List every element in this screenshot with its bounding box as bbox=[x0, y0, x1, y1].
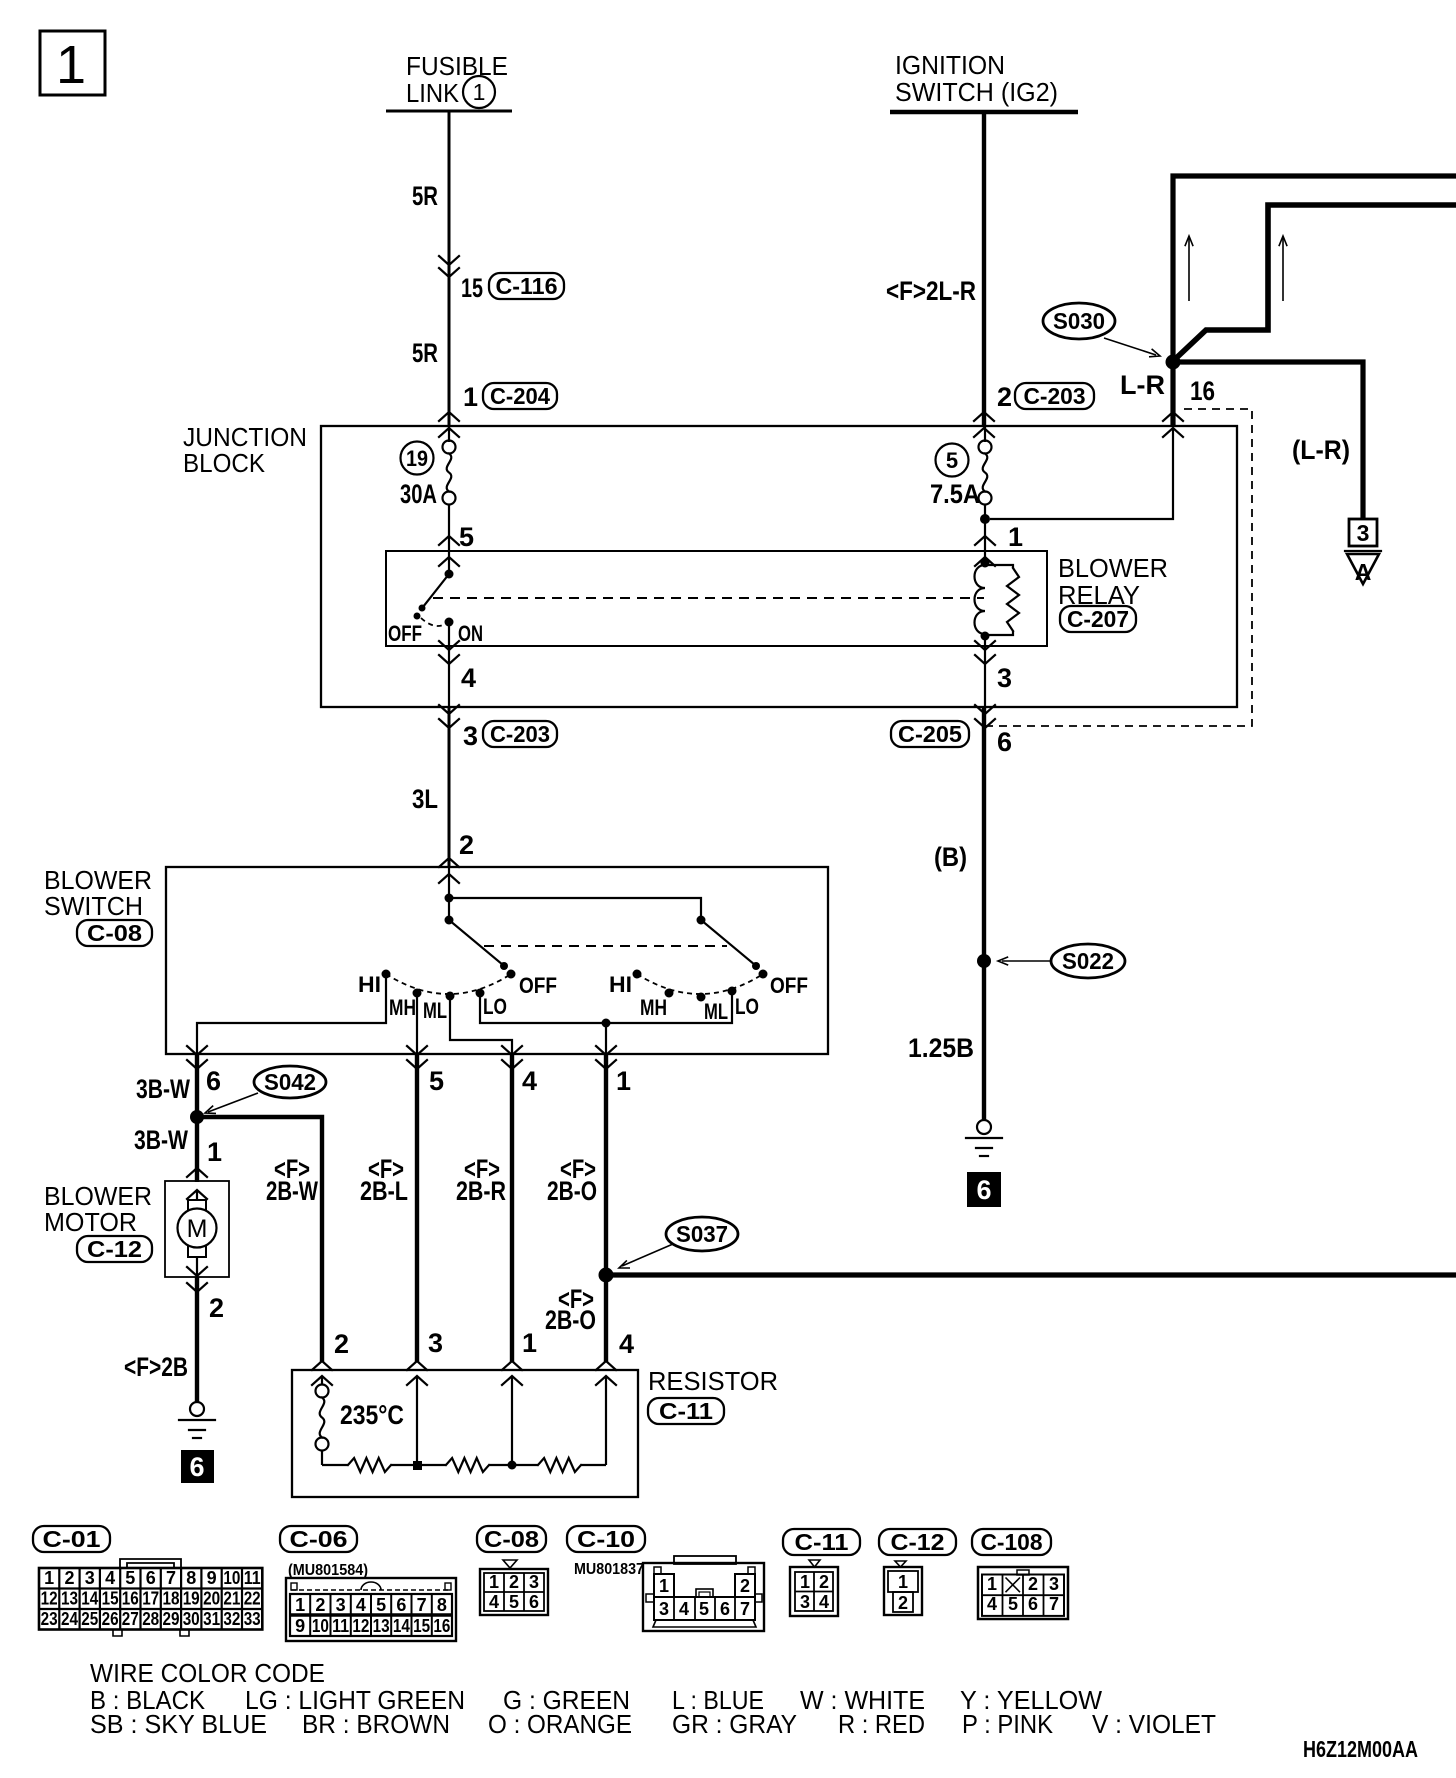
wire 5R from fusible link bbox=[448, 111, 451, 426]
svg-text:28: 28 bbox=[142, 1609, 159, 1629]
svg-text:3B-W: 3B-W bbox=[136, 1074, 190, 1104]
wire motor to ground bbox=[195, 1277, 199, 1402]
blower switch label bbox=[44, 865, 152, 921]
fusible link circled 1 bbox=[463, 76, 495, 108]
wire B to ground bbox=[982, 707, 986, 1120]
right wafer OFF contact bbox=[759, 970, 768, 979]
relay coil bottom dot bbox=[981, 632, 990, 641]
svg-text:C-207: C-207 bbox=[1067, 606, 1129, 632]
junction block entry chevrons left bbox=[439, 412, 459, 437]
svg-text:2: 2 bbox=[334, 1329, 349, 1359]
fuse 5 (7.5A) symbol bbox=[979, 441, 992, 505]
splice S042 bbox=[254, 1066, 326, 1098]
connector C-12 pinout bbox=[884, 1561, 922, 1615]
svg-text:1: 1 bbox=[295, 1595, 305, 1615]
connector C-108 pinout bbox=[978, 1567, 1068, 1619]
svg-text:OFF: OFF bbox=[519, 973, 557, 998]
svg-text:C-205: C-205 bbox=[898, 721, 962, 747]
wire from pin16 to relay coil feed bbox=[990, 428, 1173, 519]
svg-text:1: 1 bbox=[898, 1572, 908, 1592]
svg-text:1: 1 bbox=[207, 1137, 222, 1167]
arrow from S022 bbox=[998, 957, 1051, 965]
svg-text:13: 13 bbox=[61, 1589, 78, 1609]
resistor element R3 bbox=[538, 1458, 581, 1472]
switch exit chevrons pin5 bbox=[407, 1046, 427, 1069]
connector C-205 bbox=[891, 721, 969, 747]
svg-text:C-204: C-204 bbox=[490, 383, 550, 409]
svg-text:WIRE COLOR CODE: WIRE COLOR CODE bbox=[90, 1658, 325, 1688]
left wafer labels bbox=[358, 972, 557, 1023]
left wafer ML contact bbox=[446, 992, 455, 1001]
svg-text:IGNITION: IGNITION bbox=[895, 50, 1005, 80]
svg-text:1: 1 bbox=[56, 35, 86, 95]
wire 2B-R labels bbox=[456, 1154, 506, 1206]
svg-text:33: 33 bbox=[244, 1609, 261, 1629]
wire color code row 2 bbox=[90, 1709, 1216, 1739]
svg-text:25: 25 bbox=[81, 1609, 98, 1629]
svg-text:<F>2L-R: <F>2L-R bbox=[886, 276, 976, 306]
connector C-08 bbox=[77, 920, 152, 946]
svg-text:29: 29 bbox=[163, 1609, 180, 1629]
svg-text:4: 4 bbox=[987, 1594, 997, 1614]
relay contact dashed arc bbox=[421, 618, 446, 626]
svg-text:SWITCH: SWITCH bbox=[44, 891, 143, 921]
connector C-08 pinout bbox=[480, 1560, 548, 1615]
svg-text:C-11: C-11 bbox=[795, 1529, 849, 1555]
splice dot S022 bbox=[977, 954, 991, 968]
arrow from S037 bbox=[619, 1244, 673, 1268]
blower relay outline bbox=[386, 551, 1047, 646]
wire 2B-W labels bbox=[266, 1154, 318, 1206]
svg-text:20: 20 bbox=[203, 1589, 220, 1609]
svg-text:32: 32 bbox=[223, 1609, 240, 1629]
connector C-10 pinout bbox=[643, 1556, 764, 1631]
svg-text:S037: S037 bbox=[676, 1221, 728, 1247]
svg-text:3L: 3L bbox=[412, 784, 438, 814]
svg-text:10: 10 bbox=[312, 1616, 329, 1636]
svg-text:4: 4 bbox=[356, 1595, 366, 1615]
fuse 5 number circle bbox=[936, 444, 969, 477]
splice S030 bbox=[1043, 303, 1115, 339]
svg-text:1: 1 bbox=[463, 382, 478, 412]
svg-text:C-108: C-108 bbox=[981, 1529, 1043, 1555]
resistor link R3-pin4 bbox=[581, 1464, 606, 1466]
svg-text:18: 18 bbox=[163, 1589, 180, 1609]
svg-text:MOTOR: MOTOR bbox=[44, 1207, 137, 1237]
svg-text:17: 17 bbox=[142, 1589, 159, 1609]
svg-text:30: 30 bbox=[183, 1609, 200, 1629]
right wafer labels bbox=[609, 972, 808, 1024]
wire LO bus to pin 1 bbox=[480, 991, 732, 1023]
ground right bbox=[966, 1120, 1002, 1156]
svg-text:C-08: C-08 bbox=[87, 920, 142, 946]
svg-text:235°C: 235°C bbox=[340, 1400, 404, 1430]
wire L-R down to junction block pin 16 bbox=[1170, 362, 1175, 426]
junction block entry chevrons right bbox=[1163, 412, 1183, 437]
ground ref 6 right bbox=[967, 1172, 1001, 1207]
connector C-204 bbox=[483, 383, 557, 409]
junction block exit chevrons right bbox=[975, 705, 995, 728]
svg-text:3: 3 bbox=[463, 721, 478, 751]
svg-text:4: 4 bbox=[489, 1592, 499, 1612]
svg-text:6: 6 bbox=[976, 1175, 991, 1205]
wire 2L-R from ignition switch bbox=[982, 112, 986, 426]
connector C-203 top bbox=[1015, 383, 1094, 409]
svg-text:3: 3 bbox=[800, 1592, 810, 1612]
svg-text:6: 6 bbox=[396, 1595, 406, 1615]
svg-text:3: 3 bbox=[85, 1568, 95, 1588]
relay OFF contact bbox=[414, 613, 421, 620]
svg-text:S042: S042 bbox=[264, 1069, 316, 1095]
resistor element R1 bbox=[322, 1464, 348, 1466]
svg-text:C-203: C-203 bbox=[490, 721, 550, 747]
svg-text:10: 10 bbox=[223, 1568, 240, 1588]
svg-text:2: 2 bbox=[509, 1572, 519, 1592]
right wafer HI contact bbox=[633, 970, 642, 979]
left wafer pivot dot bbox=[445, 916, 454, 925]
svg-text:5R: 5R bbox=[412, 181, 438, 211]
svg-text:2: 2 bbox=[64, 1568, 74, 1588]
connector C-06 label bbox=[280, 1526, 357, 1552]
svg-text:FUSIBLE: FUSIBLE bbox=[406, 51, 508, 81]
left wafer LO contact bbox=[476, 989, 485, 998]
svg-text:R : RED: R : RED bbox=[838, 1709, 925, 1739]
svg-text:15: 15 bbox=[461, 273, 483, 303]
svg-text:1: 1 bbox=[987, 1574, 997, 1594]
fuse 19 (30A) symbol bbox=[443, 441, 456, 505]
relay mechanical dashed link bbox=[433, 597, 984, 599]
svg-text:S022: S022 bbox=[1062, 948, 1114, 974]
resistor entry chevrons pin2 bbox=[312, 1361, 332, 1385]
svg-text:6: 6 bbox=[529, 1592, 539, 1612]
switch feed dot upper bbox=[445, 894, 454, 903]
right wafer LO contact bbox=[728, 987, 737, 996]
connector C-11 pinout bbox=[790, 1560, 838, 1616]
resistor entry chevrons pin1 bbox=[502, 1361, 522, 1385]
svg-text:7: 7 bbox=[417, 1595, 427, 1615]
current direction arrow 1 bbox=[1185, 236, 1193, 301]
svg-text:2B-R: 2B-R bbox=[456, 1176, 506, 1206]
svg-text:14: 14 bbox=[81, 1589, 98, 1609]
splice dot S037 bbox=[599, 1268, 614, 1283]
svg-text:2B-O: 2B-O bbox=[547, 1176, 597, 1206]
svg-text:1: 1 bbox=[616, 1066, 631, 1096]
svg-text:C-06: C-06 bbox=[290, 1526, 348, 1552]
svg-text:S030: S030 bbox=[1053, 308, 1105, 334]
blower motor outline bbox=[165, 1181, 229, 1277]
svg-text:4: 4 bbox=[819, 1592, 829, 1612]
svg-text:2: 2 bbox=[898, 1593, 908, 1613]
switch exit chevrons pin4 bbox=[502, 1046, 522, 1069]
svg-text:SWITCH (IG2): SWITCH (IG2) bbox=[895, 77, 1058, 107]
wire splice to motor bbox=[195, 1117, 199, 1182]
arrow from S042 bbox=[205, 1093, 258, 1113]
svg-text:A: A bbox=[1355, 559, 1372, 585]
arrow from S030 to junction bbox=[1104, 338, 1160, 357]
current direction arrow 2 bbox=[1279, 236, 1287, 301]
svg-text:4: 4 bbox=[461, 663, 476, 693]
switch exit chevrons pin1 bbox=[596, 1046, 616, 1069]
junction dot S030 bbox=[1166, 355, 1181, 370]
fusible link label bbox=[406, 51, 508, 108]
svg-text:3: 3 bbox=[336, 1595, 346, 1615]
wire HI to pin 6 bbox=[197, 974, 386, 1055]
relay switch arm bbox=[419, 574, 450, 612]
svg-text:3: 3 bbox=[659, 1599, 669, 1619]
svg-text:2B-W: 2B-W bbox=[266, 1176, 318, 1206]
wire stub into junction block middle bbox=[984, 426, 986, 442]
page terminal arrow A bbox=[1345, 551, 1381, 585]
svg-text:2B-L: 2B-L bbox=[360, 1176, 408, 1206]
junction block outline bbox=[321, 426, 1237, 707]
svg-text:OFF: OFF bbox=[388, 621, 422, 646]
right wafer contact arc bbox=[637, 974, 763, 994]
svg-text:3: 3 bbox=[1357, 520, 1370, 546]
wire 2B-R bbox=[510, 1054, 514, 1362]
svg-text:1: 1 bbox=[800, 1572, 810, 1592]
svg-text:14: 14 bbox=[393, 1616, 410, 1636]
svg-text:H6Z12M00AA: H6Z12M00AA bbox=[1303, 1736, 1418, 1762]
svg-text:ON: ON bbox=[458, 621, 483, 646]
page number box 1 bbox=[40, 31, 105, 95]
svg-text:(MU801584): (MU801584) bbox=[288, 1562, 368, 1579]
svg-text:1: 1 bbox=[1008, 522, 1023, 552]
svg-text:6: 6 bbox=[1028, 1594, 1038, 1614]
connector C-10 label bbox=[567, 1526, 645, 1552]
wire 2B-L labels bbox=[360, 1154, 408, 1206]
relay entry chevrons left bbox=[439, 536, 459, 566]
svg-text:3B-W: 3B-W bbox=[134, 1125, 188, 1155]
junction dot pin1 bbox=[508, 1461, 517, 1470]
svg-text:26: 26 bbox=[102, 1609, 119, 1629]
svg-text:M: M bbox=[187, 1215, 208, 1243]
svg-text:5: 5 bbox=[946, 448, 958, 473]
svg-text:2: 2 bbox=[819, 1572, 829, 1592]
resistor box outline bbox=[292, 1370, 638, 1497]
svg-text:MU801837: MU801837 bbox=[574, 1561, 644, 1578]
svg-text:23: 23 bbox=[41, 1609, 58, 1629]
wire L-R second branch bbox=[1172, 205, 1456, 362]
relay entry chevrons right bbox=[975, 536, 995, 566]
dashed block around L-R path bbox=[985, 409, 1252, 726]
svg-text:(L-R): (L-R) bbox=[1292, 435, 1350, 465]
svg-text:C-12: C-12 bbox=[891, 1529, 945, 1555]
svg-text:19: 19 bbox=[406, 446, 428, 471]
svg-text:30A: 30A bbox=[400, 479, 437, 509]
wire pin1 internal bbox=[511, 1376, 513, 1465]
left wafer arm bbox=[449, 920, 508, 970]
right wafer MH contact bbox=[665, 989, 674, 998]
resistor element R2 bbox=[446, 1458, 489, 1472]
svg-text:MH: MH bbox=[389, 995, 416, 1020]
relay ON contact dot bbox=[445, 618, 454, 627]
wire fuse5 to relay coil bbox=[984, 504, 986, 566]
splice S037 bbox=[666, 1217, 738, 1251]
svg-text:1: 1 bbox=[489, 1572, 499, 1592]
svg-text:BLOCK: BLOCK bbox=[183, 448, 266, 478]
wire MH to pin 5 bbox=[416, 993, 418, 1055]
left wafer OFF contact bbox=[507, 970, 516, 979]
svg-text:C-116: C-116 bbox=[496, 273, 558, 299]
svg-text:19: 19 bbox=[183, 1589, 200, 1609]
svg-text:ML: ML bbox=[423, 998, 447, 1023]
svg-text:2: 2 bbox=[1028, 1574, 1038, 1594]
junction block label bbox=[183, 422, 307, 478]
svg-text:1: 1 bbox=[473, 79, 486, 105]
right wafer pivot dot bbox=[697, 916, 706, 925]
svg-text:16: 16 bbox=[433, 1616, 450, 1636]
connector C-01 label bbox=[33, 1526, 110, 1552]
wire color code row 1 bbox=[90, 1685, 1102, 1715]
resistor entry chevrons pin4 bbox=[596, 1361, 616, 1385]
svg-text:9: 9 bbox=[207, 1568, 217, 1588]
svg-text:21: 21 bbox=[223, 1589, 240, 1609]
gang dashed link bbox=[484, 945, 727, 947]
svg-text:3: 3 bbox=[428, 1328, 443, 1358]
wire 2B-O bbox=[604, 1054, 608, 1362]
svg-text:27: 27 bbox=[122, 1609, 139, 1629]
wire L-R upper branch bbox=[1173, 176, 1456, 361]
svg-text:8: 8 bbox=[186, 1568, 196, 1588]
relay exit chevrons right bbox=[975, 641, 995, 664]
wire pin4 internal bbox=[605, 1376, 607, 1465]
svg-text:5: 5 bbox=[125, 1568, 135, 1588]
wire ML to pin 4 bbox=[450, 996, 512, 1055]
svg-text:6: 6 bbox=[206, 1066, 221, 1096]
svg-text:2: 2 bbox=[459, 830, 474, 860]
svg-text:C-08: C-08 bbox=[484, 1526, 539, 1552]
connector C-11 bbox=[648, 1398, 724, 1424]
svg-text:2: 2 bbox=[209, 1293, 224, 1323]
resistor link R2-R3 bbox=[489, 1464, 538, 1466]
svg-text:7.5A: 7.5A bbox=[930, 479, 980, 509]
wire fuse19 to relay bbox=[448, 504, 450, 576]
svg-text:BR : BROWN: BR : BROWN bbox=[302, 1709, 450, 1739]
svg-text:C-203: C-203 bbox=[1024, 383, 1086, 409]
connector C-203 lower bbox=[483, 721, 557, 747]
svg-text:11: 11 bbox=[332, 1616, 349, 1636]
blower switch outline bbox=[166, 867, 828, 1054]
relay switch common dot bbox=[445, 570, 454, 579]
fusible link bus bar bbox=[386, 110, 512, 113]
blower motor label bbox=[44, 1181, 152, 1237]
svg-text:9: 9 bbox=[295, 1616, 305, 1636]
relay coil resistor bbox=[985, 565, 1013, 568]
right wafer arm bbox=[701, 920, 760, 970]
wire from S030 junction to terminal 3 bbox=[1173, 362, 1363, 519]
connector C-11 label bbox=[783, 1529, 860, 1555]
svg-text:4: 4 bbox=[619, 1329, 634, 1359]
svg-text:LO: LO bbox=[483, 994, 507, 1019]
svg-text:6: 6 bbox=[997, 727, 1012, 757]
blower relay label bbox=[1058, 553, 1168, 610]
svg-text:3: 3 bbox=[1049, 1574, 1059, 1594]
svg-text:5: 5 bbox=[1008, 1594, 1018, 1614]
svg-text:O : ORANGE: O : ORANGE bbox=[488, 1709, 632, 1739]
svg-text:22: 22 bbox=[244, 1589, 261, 1609]
junction block exit chevrons left bbox=[439, 705, 459, 728]
left wafer contact arc bbox=[386, 974, 511, 994]
svg-text:LO: LO bbox=[735, 994, 759, 1019]
svg-text:12: 12 bbox=[41, 1589, 58, 1609]
svg-text:1: 1 bbox=[659, 1576, 669, 1596]
svg-text:7: 7 bbox=[166, 1568, 176, 1588]
svg-text:12: 12 bbox=[352, 1616, 369, 1636]
svg-text:MH: MH bbox=[640, 995, 667, 1020]
svg-text:6: 6 bbox=[720, 1599, 730, 1619]
svg-text:13: 13 bbox=[373, 1616, 390, 1636]
wire 2B-L bbox=[415, 1054, 419, 1362]
connector C-116 bbox=[489, 273, 564, 299]
motor exit chevrons bbox=[187, 1267, 207, 1292]
motor M1 bbox=[178, 1190, 217, 1277]
svg-text:3: 3 bbox=[997, 663, 1012, 693]
LO bus junction dot bbox=[602, 1019, 611, 1028]
svg-text:HI: HI bbox=[358, 972, 381, 997]
connector C-207 bbox=[1060, 606, 1136, 632]
switch feed branch to right wafer bbox=[449, 898, 701, 920]
svg-text:P : PINK: P : PINK bbox=[962, 1709, 1054, 1739]
ground ref 6 left bbox=[181, 1450, 214, 1483]
svg-text:5: 5 bbox=[699, 1599, 709, 1619]
svg-text:C-10: C-10 bbox=[577, 1526, 635, 1552]
relay coil bbox=[975, 565, 986, 634]
svg-text:2: 2 bbox=[997, 382, 1012, 412]
connector C-12 bbox=[77, 1236, 152, 1262]
wire 2B-O labels lower bbox=[545, 1284, 596, 1335]
svg-text:LINK: LINK bbox=[406, 78, 460, 108]
svg-text:16: 16 bbox=[1190, 376, 1215, 406]
left wafer HI contact bbox=[382, 970, 391, 979]
svg-text:C-12: C-12 bbox=[87, 1236, 142, 1262]
ignition switch bus bar bbox=[890, 110, 1078, 114]
svg-text:5R: 5R bbox=[412, 338, 438, 368]
resistor link R1-R2 bbox=[391, 1464, 446, 1466]
svg-text:(B): (B) bbox=[934, 842, 967, 872]
svg-text:1: 1 bbox=[44, 1568, 54, 1588]
svg-text:6: 6 bbox=[146, 1568, 156, 1588]
resistor entry chevrons pin3 bbox=[407, 1361, 427, 1385]
relay exit chevrons left bbox=[439, 641, 459, 664]
connector C-01 pinout bbox=[39, 1559, 262, 1636]
wire S037 to right edge bbox=[606, 1272, 1456, 1277]
wire pin6 to splice bbox=[195, 1054, 199, 1117]
fuse 19 number circle bbox=[401, 442, 434, 475]
svg-text:15: 15 bbox=[102, 1589, 119, 1609]
svg-text:SB : SKY BLUE: SB : SKY BLUE bbox=[90, 1709, 267, 1739]
motor entry chevrons bbox=[187, 1168, 207, 1199]
wire stub into junction block left bbox=[448, 426, 450, 442]
connector C-116 chevrons bbox=[439, 256, 459, 277]
wire relay coil output bbox=[984, 638, 986, 707]
junction dot pin3 bbox=[413, 1461, 422, 1470]
ignition switch label bbox=[895, 50, 1058, 107]
resistor pin labels bbox=[334, 1328, 634, 1359]
wire relay switch output bbox=[448, 624, 450, 707]
thermal fuse 235C bbox=[316, 1376, 329, 1465]
svg-text:5: 5 bbox=[459, 522, 474, 552]
svg-text:5: 5 bbox=[376, 1595, 386, 1615]
svg-text:<F>2B: <F>2B bbox=[124, 1352, 188, 1382]
switch exit chevrons pin6 bbox=[187, 1046, 207, 1069]
svg-text:HI: HI bbox=[609, 972, 632, 997]
switch feed stub bbox=[448, 868, 450, 920]
svg-text:C-01: C-01 bbox=[43, 1526, 101, 1552]
svg-text:OFF: OFF bbox=[770, 973, 808, 998]
ground left bbox=[179, 1402, 215, 1438]
svg-text:BLOWER: BLOWER bbox=[1058, 553, 1168, 583]
svg-text:V : VIOLET: V : VIOLET bbox=[1092, 1709, 1216, 1739]
